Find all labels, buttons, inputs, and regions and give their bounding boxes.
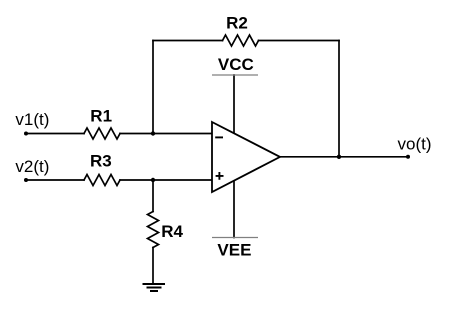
svg-text:R1: R1 bbox=[90, 107, 112, 126]
op-amp U1 bbox=[212, 122, 280, 192]
wire R4 to ground bbox=[152, 248, 154, 285]
wire R3 to op-amp non-inverting input bbox=[120, 179, 212, 181]
wire op-amp output to vo terminal bbox=[280, 156, 408, 158]
svg-text:v1(t): v1(t) bbox=[15, 110, 49, 129]
svg-text:R4: R4 bbox=[161, 222, 183, 241]
node output junction bbox=[337, 155, 341, 159]
wire v2 input to R3 bbox=[26, 179, 84, 181]
wire feedback left vertical from node A bbox=[152, 41, 154, 134]
resistor R1 bbox=[84, 128, 120, 139]
svg-text:VCC: VCC bbox=[218, 55, 254, 74]
node vo terminal bbox=[406, 155, 410, 159]
node v2 terminal bbox=[24, 178, 28, 182]
wire feedback right vertical down to output bbox=[338, 41, 340, 157]
svg-text:R3: R3 bbox=[90, 151, 112, 170]
ground bbox=[143, 284, 166, 291]
VCC rail bar bbox=[212, 74, 258, 76]
resistor R3 bbox=[84, 175, 120, 186]
resistor R4 bbox=[148, 212, 159, 248]
VEE rail bar bbox=[212, 237, 258, 239]
node v1 terminal bbox=[24, 132, 28, 136]
svg-text:v2(t): v2(t) bbox=[15, 157, 49, 176]
node B junction bbox=[151, 178, 155, 182]
wire R2 to top right corner bbox=[259, 40, 340, 42]
wire node B to R4 bbox=[152, 180, 154, 212]
wire VEE supply bbox=[233, 181, 235, 238]
svg-text:R2: R2 bbox=[226, 13, 248, 32]
node A junction bbox=[151, 131, 155, 135]
svg-text:vo(t): vo(t) bbox=[398, 135, 432, 154]
op-amp non-inverting input symbol bbox=[216, 172, 224, 180]
wire VCC supply bbox=[233, 75, 235, 134]
wire R1 to op-amp inverting input bbox=[120, 133, 212, 135]
wire feedback top left to R2 bbox=[153, 40, 223, 42]
wire v1 input to R1 bbox=[26, 133, 84, 135]
svg-text:VEE: VEE bbox=[217, 240, 251, 259]
resistor R2 bbox=[223, 35, 259, 46]
op-amp inverting input symbol bbox=[215, 136, 223, 138]
